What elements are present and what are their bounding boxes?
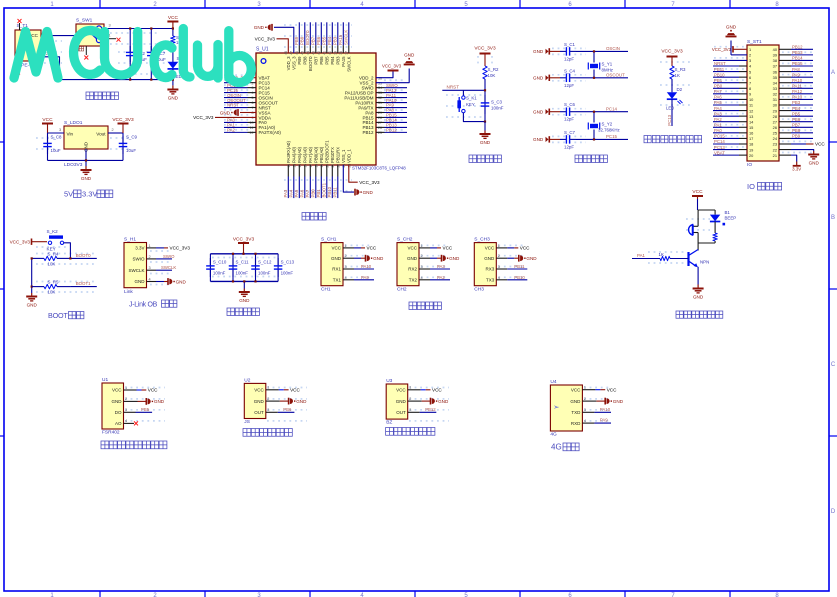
svg-text:PB9: PB9 [297,56,302,65]
svg-text:PB0: PB0 [311,189,316,198]
svg-text:PB13: PB13 [792,50,803,55]
svg-text:U1: U1 [102,377,108,383]
svg-text:BOOT0: BOOT0 [308,56,313,71]
svg-text:PB8: PB8 [792,128,801,133]
svg-text:PA12: PA12 [792,89,803,94]
svg-text:5V: 5V [64,190,73,199]
svg-text:9: 9 [252,116,254,120]
svg-text:VDD_1: VDD_1 [346,149,351,163]
svg-text:RX2: RX2 [408,267,417,272]
svg-text:S_C10: S_C10 [213,260,227,265]
svg-text:7: 7 [252,106,254,110]
svg-text:S_C11: S_C11 [236,260,250,265]
svg-text:5: 5 [252,96,254,100]
svg-text:20: 20 [325,164,329,168]
caption J-Link OB port [124,237,190,309]
svg-text:27: 27 [378,121,382,125]
svg-text:13: 13 [287,164,291,168]
svg-text:34: 34 [378,86,382,90]
svg-text:PB11RX: PB11RX [335,147,340,163]
svg-text:21: 21 [331,164,335,168]
svg-text:PB1: PB1 [714,78,723,83]
svg-text:PB10: PB10 [514,275,525,280]
svg-text:3: 3 [149,266,151,270]
svg-text:PB12: PB12 [792,45,803,50]
svg-text:VCC: VCC [692,189,703,195]
svg-text:PA15: PA15 [341,56,346,67]
svg-text:S_CH1: S_CH1 [321,237,337,243]
svg-text:VCC: VCC [485,246,495,251]
svg-text:SWCLK: SWCLK [344,30,349,45]
svg-text:100nF: 100nF [281,271,294,276]
caption IR obstacle module [386,428,435,436]
svg-text:GND: GND [726,24,737,29]
svg-text:PA4: PA4 [714,106,722,111]
svg-text:100nF: 100nF [213,271,226,276]
svg-text:C: C [831,362,836,368]
svg-text:3: 3 [409,408,411,412]
svg-text:5: 5 [749,69,751,74]
svg-text:1: 1 [409,386,411,390]
svg-text:2: 2 [267,397,269,401]
svg-text:10K: 10K [48,290,56,295]
svg-text:PA3RX(A0): PA3RX(A0) [286,141,291,163]
svg-text:LED: LED [666,106,674,111]
svg-text:GND: GND [570,399,581,404]
svg-text:PB7: PB7 [792,122,801,127]
svg-text:25: 25 [378,131,382,135]
svg-text:4: 4 [498,276,500,280]
svg-text:PC13: PC13 [714,145,725,150]
svg-text:1K: 1K [675,73,680,78]
svg-text:PA7(A0): PA7(A0) [308,147,313,163]
svg-text:4G: 4G [550,432,557,438]
svg-text:GND: GND [449,256,460,261]
svg-text:GND: GND [363,190,374,195]
svg-text:3.3V: 3.3V [82,190,97,199]
svg-text:NRST: NRST [447,84,460,89]
svg-text:2: 2 [125,397,127,401]
svg-text:GND: GND [526,256,537,261]
svg-text:48: 48 [284,51,288,55]
svg-text:43: 43 [312,51,316,55]
svg-text:22: 22 [336,164,340,168]
svg-text:PB5: PB5 [141,407,150,412]
svg-text:GND: GND [27,302,38,307]
svg-text:VSS_1: VSS_1 [341,149,346,163]
svg-text:SWCLK: SWCLK [161,265,176,270]
svg-text:GND: GND [331,256,342,261]
svg-text:GND: GND [373,256,384,261]
svg-text:VCC: VCC [112,388,122,393]
svg-text:TX3: TX3 [486,278,495,283]
caption IR through-beam module [243,429,292,437]
svg-text:CH1: CH1 [321,287,331,293]
svg-text:PB15: PB15 [792,61,803,66]
svg-text:VCC: VCC [168,15,179,21]
svg-text:3: 3 [345,265,347,269]
svg-text:PA8: PA8 [792,67,800,72]
svg-text:PA5: PA5 [294,189,299,197]
svg-text:15: 15 [749,125,753,130]
svg-text:VCC: VCC [432,388,442,393]
svg-text:23: 23 [773,142,777,147]
svg-text:32: 32 [773,92,777,97]
svg-text:VCC: VCC [42,117,53,123]
svg-text:24: 24 [347,164,351,168]
svg-text:100nF: 100nF [236,271,249,276]
svg-text:BZ: BZ [386,420,392,426]
svg-text:PA9: PA9 [600,418,608,423]
svg-text:RX1: RX1 [332,267,341,272]
svg-text:PA6: PA6 [300,189,305,197]
svg-text:18: 18 [749,142,753,147]
svg-text:AO: AO [115,421,122,426]
svg-text:S_C13: S_C13 [281,260,295,265]
svg-text:GND: GND [438,399,449,404]
svg-text:PA10: PA10 [600,407,611,412]
svg-text:VCC: VCC [520,246,530,251]
svg-text:NPN: NPN [700,260,709,265]
svg-text:4: 4 [125,419,127,423]
svg-text:GND: GND [809,160,820,165]
svg-text:PB1: PB1 [316,189,321,198]
svg-text:PA5(A0): PA5(A0) [297,147,302,163]
svg-text:VCC_3V3: VCC_3V3 [255,37,276,42]
svg-text:8MHz: 8MHz [602,68,613,73]
svg-text:U4: U4 [550,379,556,385]
svg-text:SWCLK: SWCLK [347,56,352,71]
svg-text:PB0(A0): PB0(A0) [313,146,318,163]
svg-text:OSCOUT: OSCOUT [606,73,625,78]
svg-text:2: 2 [421,254,423,258]
svg-text:11: 11 [250,126,254,130]
svg-text:OUT: OUT [254,410,264,415]
svg-text:2: 2 [345,254,347,258]
svg-text:PA3: PA3 [714,111,722,116]
svg-text:BOOT0: BOOT0 [305,30,310,45]
svg-text:28: 28 [378,116,382,120]
svg-text:GND: GND [407,256,418,261]
svg-text:46: 46 [295,51,299,55]
caption main chip [193,22,415,220]
svg-text:PB11: PB11 [514,264,525,269]
svg-text:NRST: NRST [227,103,239,108]
svg-text:STM32F103C8T6_LQFP48: STM32F103C8T6_LQFP48 [352,166,406,171]
svg-text:S_C12: S_C12 [258,260,272,265]
svg-text:100nF: 100nF [491,106,504,111]
svg-text:VCC_3V3: VCC_3V3 [10,240,31,245]
svg-text:VCC_3V3: VCC_3V3 [112,117,134,123]
svg-text:A: A [831,70,835,76]
svg-text:VCC_3V3: VCC_3V3 [170,246,191,251]
svg-text:PC14: PC14 [714,139,725,144]
svg-text:S_C4: S_C4 [564,68,576,73]
svg-text:S_C9: S_C9 [126,135,138,140]
svg-text:4: 4 [252,91,254,95]
svg-text:PB7: PB7 [314,56,319,65]
svg-text:S_CH3: S_CH3 [474,237,490,243]
svg-text:GND: GND [220,110,231,115]
svg-text:GND: GND [81,176,92,181]
svg-text:VCC: VCC [254,388,264,393]
svg-text:PB4: PB4 [330,56,335,65]
caption power circuit [15,15,185,100]
svg-text:Vout: Vout [96,132,106,137]
svg-text:PC15: PC15 [606,134,618,139]
svg-text:12pF: 12pF [564,83,574,88]
svg-text:2: 2 [149,255,151,259]
svg-text:PB14: PB14 [792,56,803,61]
svg-text:42: 42 [317,51,321,55]
svg-text:1: 1 [584,386,586,390]
svg-text:12pF: 12pF [564,144,574,149]
svg-text:PB5: PB5 [325,56,330,65]
svg-text:SWCLK: SWCLK [128,268,144,273]
svg-text:TX1: TX1 [333,278,342,283]
svg-text:PB1(A0): PB1(A0) [319,146,324,163]
svg-text:8: 8 [749,86,751,91]
svg-text:PB12: PB12 [362,130,374,135]
svg-text:38: 38 [773,58,777,63]
svg-text:VDD_3: VDD_3 [286,56,291,70]
svg-text:GND: GND [613,399,624,404]
svg-text:PB12: PB12 [425,407,436,412]
svg-text:3: 3 [59,128,61,132]
svg-text:1K: 1K [659,252,664,257]
svg-text:GND: GND [533,110,544,115]
svg-text:PB10TX: PB10TX [330,147,335,163]
svg-text:PA1: PA1 [637,253,646,258]
svg-text:26: 26 [378,126,382,130]
svg-text:GND: GND [533,137,544,142]
svg-text:PA3: PA3 [437,264,445,269]
svg-text:3: 3 [498,265,500,269]
caption 4G module [551,443,579,452]
svg-text:3.3V: 3.3V [135,246,144,251]
svg-text:12: 12 [250,131,254,135]
caption IO expansion port [712,24,825,191]
svg-text:LDO3V3: LDO3V3 [64,162,83,168]
svg-text:PA10: PA10 [792,78,803,83]
svg-text:VCC: VCC [443,246,453,251]
svg-text:4: 4 [421,276,423,280]
svg-text:S_LDO1: S_LDO1 [64,120,83,126]
svg-text:2: 2 [409,397,411,401]
svg-text:PA1: PA1 [714,122,722,127]
svg-text:7: 7 [749,80,751,85]
svg-text:8: 8 [252,111,254,115]
svg-text:GND: GND [533,76,544,81]
svg-text:VCC_3V3: VCC_3V3 [661,49,683,55]
svg-text:PA10: PA10 [361,264,372,269]
svg-text:GND: GND [168,95,179,100]
svg-text:PB8: PB8 [303,56,308,65]
svg-text:1: 1 [749,47,751,52]
svg-text:37: 37 [773,64,777,69]
svg-text:4: 4 [149,278,151,282]
svg-text:PA13: PA13 [792,95,803,100]
caption program run indicator [644,49,702,143]
svg-text:RX3: RX3 [486,267,495,272]
svg-text:31: 31 [773,97,777,102]
svg-text:3: 3 [125,408,127,412]
svg-text:VCC: VCC [367,246,377,251]
svg-text:PB5: PB5 [322,36,327,45]
svg-text:21: 21 [773,153,777,158]
svg-text:PA2TX(A0): PA2TX(A0) [259,130,282,135]
svg-text:29: 29 [378,111,382,115]
svg-text:PA5: PA5 [714,100,722,105]
svg-text:32: 32 [378,96,382,100]
caption 5V to 3.3V circuit [42,117,138,199]
svg-text:3: 3 [252,86,254,90]
svg-text:VCC: VCC [607,387,617,392]
svg-text:PA15: PA15 [338,34,343,45]
svg-text:GND: GND [404,52,415,57]
svg-text:PA2: PA2 [227,128,236,133]
svg-text:16: 16 [749,131,753,136]
svg-text:3: 3 [109,24,111,28]
svg-text:12: 12 [749,108,753,113]
svg-text:1: 1 [498,244,500,248]
svg-text:PA4: PA4 [289,189,294,197]
svg-text:PC13: PC13 [667,114,672,125]
svg-text:29: 29 [773,108,777,113]
svg-text:S_C6: S_C6 [564,102,576,107]
svg-text:27: 27 [773,119,777,124]
svg-text:SWIO: SWIO [163,254,175,259]
svg-text:GND: GND [254,399,265,404]
svg-text:FSR402: FSR402 [102,430,120,436]
svg-text:PB11: PB11 [333,187,338,198]
svg-text:U2: U2 [244,377,250,383]
svg-text:JS: JS [244,419,250,425]
caption filter circuit [206,237,294,316]
svg-text:10uF: 10uF [126,148,136,153]
svg-text:PB9: PB9 [792,134,801,139]
svg-text:PA11: PA11 [792,83,802,88]
svg-text:CH3: CH3 [474,287,484,293]
svg-text:2: 2 [749,53,751,58]
svg-text:BOOT1: BOOT1 [322,182,327,197]
svg-text:10uF: 10uF [51,148,61,153]
svg-text:2: 2 [584,397,586,401]
svg-text:28: 28 [773,114,777,119]
svg-text:PA6(A0): PA6(A0) [302,147,307,163]
svg-text:12pF: 12pF [564,56,574,61]
svg-text:TXD: TXD [571,410,581,415]
svg-text:GND: GND [693,294,704,299]
svg-text:PB6: PB6 [319,56,324,65]
svg-text:2: 2 [252,81,254,85]
svg-text:40: 40 [328,51,332,55]
svg-text:17: 17 [309,164,313,168]
svg-text:D: D [831,509,836,515]
svg-text:PB5: PB5 [792,111,801,116]
svg-text:PB6: PB6 [316,36,321,45]
svg-text:19: 19 [320,164,324,168]
svg-text:PB9: PB9 [294,36,299,45]
svg-text:BOOT1: BOOT1 [76,281,91,286]
svg-text:PB6: PB6 [283,407,292,412]
svg-text:IO: IO [747,182,755,191]
svg-text:GND: GND [533,49,544,54]
svg-text:1: 1 [421,244,423,248]
svg-text:10K: 10K [48,261,56,266]
svg-text:S_C3: S_C3 [491,100,503,105]
svg-text:31: 31 [378,101,382,105]
svg-text:41: 41 [323,51,327,55]
svg-text:VCC_3V3: VCC_3V3 [712,47,732,52]
svg-text:VCC: VCC [290,388,300,393]
svg-text:4: 4 [345,276,347,280]
svg-text:GND: GND [396,399,407,404]
svg-text:PA2: PA2 [437,275,445,280]
svg-text:10: 10 [250,121,254,125]
svg-text:11: 11 [749,103,753,108]
svg-text:1: 1 [267,386,269,390]
svg-text:RXD: RXD [571,421,581,426]
svg-text:KEY: KEY [466,102,475,107]
svg-text:S_Y1: S_Y1 [602,62,613,67]
svg-text:GND: GND [239,298,250,303]
svg-text:33: 33 [773,86,777,91]
svg-text:4: 4 [584,419,586,423]
svg-text:GND: GND [296,399,307,404]
svg-text:PA9: PA9 [792,72,800,77]
svg-text:S_R5: S_R5 [48,280,60,285]
svg-text:30: 30 [378,106,382,110]
svg-text:S_U1: S_U1 [256,47,269,53]
svg-text:PB3: PB3 [792,100,801,105]
svg-text:S_K1: S_K1 [466,95,477,100]
svg-text:26: 26 [773,125,777,130]
svg-text:3: 3 [749,58,751,63]
svg-text:100nF: 100nF [258,271,271,276]
svg-text:23: 23 [342,164,346,168]
svg-text:S_ST1: S_ST1 [747,39,762,45]
svg-text:NRST: NRST [714,61,726,66]
caption BOOT circuit [10,229,97,320]
svg-text:PB10: PB10 [327,186,332,197]
svg-text:PB0: PB0 [714,83,723,88]
svg-text:VCC: VCC [148,388,158,393]
svg-text:S_R2: S_R2 [488,67,500,72]
svg-text:2: 2 [112,128,114,132]
svg-text:1: 1 [125,386,127,390]
svg-text:VCC_3V3: VCC_3V3 [193,115,214,120]
svg-text:PA6: PA6 [714,95,722,100]
svg-text:10K: 10K [488,73,496,78]
svg-text:22: 22 [773,147,777,152]
net label PB6 U2 [244,383,265,418]
svg-text:DO: DO [115,410,122,415]
svg-text:Vin: Vin [67,132,74,137]
svg-text:3: 3 [421,265,423,269]
svg-text:J-Link OB: J-Link OB [129,302,158,309]
svg-text:SWIO: SWIO [133,257,145,262]
svg-text:1: 1 [149,244,151,248]
caption sound light alarm circuit [632,189,736,318]
svg-text:PB4: PB4 [327,36,332,45]
svg-text:S_C8: S_C8 [51,135,63,140]
svg-text:33: 33 [378,91,382,95]
svg-text:9: 9 [749,92,751,97]
svg-text:GND: GND [484,256,495,261]
svg-text:PC15: PC15 [714,134,725,139]
svg-text:S_C1: S_C1 [564,42,576,47]
